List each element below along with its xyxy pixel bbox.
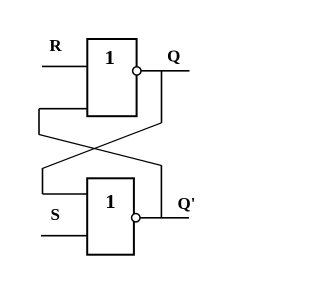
svg-text:S: S — [50, 205, 59, 224]
svg-text:1: 1 — [105, 191, 115, 213]
svg-text:1: 1 — [105, 47, 115, 69]
wire Q output — [141, 70, 189, 72]
wire Q' feedback into U1 input — [39, 108, 87, 110]
NOR gate U2 (bottom) body — [87, 178, 134, 254]
wire Q feedback vertical drop — [161, 71, 163, 123]
wire Q' feedback diagonal — [39, 135, 161, 166]
svg-text:Q: Q — [167, 46, 180, 65]
inverter bubble U1 output — [133, 67, 141, 75]
svg-text:R: R — [49, 36, 62, 55]
wire Q' feedback right vertical — [160, 165, 162, 218]
wire Q feedback diagonal — [43, 123, 162, 169]
inverter bubble U2 output — [132, 214, 140, 222]
wire Q' output — [140, 217, 189, 219]
wire S input — [41, 235, 87, 237]
wire Q feedback into U2 input — [43, 193, 88, 195]
svg-text:Q': Q' — [178, 194, 196, 213]
NOR gate U1 (top) body — [87, 39, 136, 116]
wire Q feedback left vertical — [42, 168, 44, 194]
wire Q' feedback left vertical — [38, 109, 40, 135]
wire R input — [42, 65, 87, 67]
